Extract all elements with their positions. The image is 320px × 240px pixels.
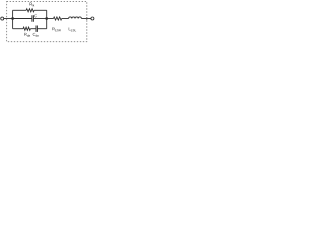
wire: middle branch left — [13, 18, 32, 20]
wire: bottom branch middle — [30, 28, 36, 30]
wire: RESR to LESL — [62, 18, 69, 20]
wire: middle branch right — [33, 18, 46, 20]
terminal T1 (left) — [1, 17, 4, 20]
junction dot at node B — [45, 17, 48, 20]
capacitor C (main capacitance) — [32, 15, 34, 21]
resistor Rda (dielectric absorption) — [23, 27, 30, 30]
inductor LESL (equivalent series inductance) — [69, 17, 82, 19]
junction dot at node A — [11, 17, 14, 20]
node A (left rail) — [12, 10, 14, 28]
wire: LESL to right terminal — [81, 18, 91, 20]
label C — [34, 14, 37, 17]
border crossing mark at right edge — [86, 17, 88, 20]
wire: top branch left — [13, 9, 27, 11]
capacitor Cda (dielectric absorption) — [36, 26, 37, 32]
label Rlk — [30, 3, 35, 7]
wire: left terminal to node A — [4, 18, 13, 20]
resistor RESR (equivalent series resistance) — [54, 17, 62, 20]
wire: bottom branch right — [37, 28, 46, 30]
label RESR — [52, 27, 60, 31]
label LESL — [69, 27, 76, 31]
terminal T2 (right) — [91, 17, 94, 20]
wire: bottom branch down-left — [13, 28, 23, 30]
wire: output to RESR — [47, 18, 54, 20]
background — [0, 0, 95, 49]
label Cda — [33, 33, 39, 37]
dashed component boundary box — [7, 1, 87, 41]
node B (right rail) — [46, 10, 48, 28]
resistor Rleak (top branch) — [26, 9, 34, 12]
wire: top branch right — [34, 9, 47, 11]
label Rda — [24, 33, 30, 37]
